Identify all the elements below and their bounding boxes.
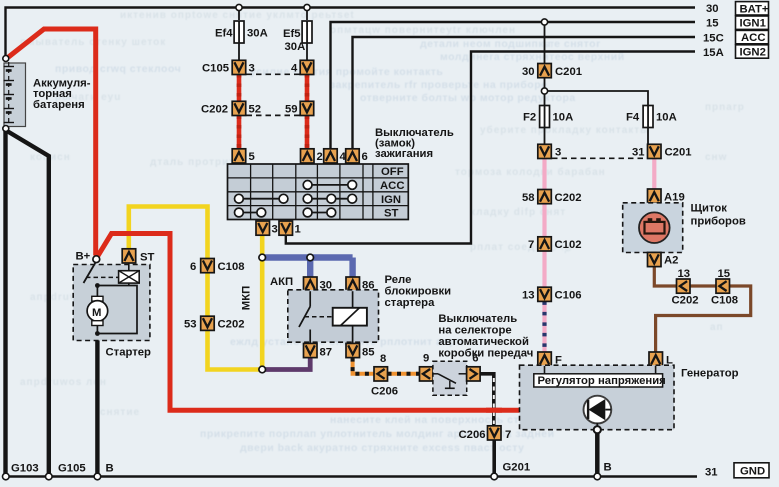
relay coil: [333, 291, 367, 343]
svg-text:G105: G105: [58, 463, 86, 475]
connector C201 pin 31: [648, 144, 662, 158]
svg-text:АКП: АКП: [270, 276, 293, 288]
svg-text:5: 5: [249, 151, 255, 163]
svg-text:OFF: OFF: [381, 166, 404, 178]
connector C106 pin 13: [538, 287, 552, 301]
wire bus 31 GND bottom: [6, 475, 698, 478]
svg-text:C202: C202: [555, 192, 582, 204]
svg-text:прnarp: прnarp: [705, 102, 745, 113]
node fuse branch: [541, 88, 547, 94]
connector C202 pin 13 brown: [677, 279, 691, 293]
charge warning lamp: [639, 212, 670, 243]
svg-text:ACC: ACC: [380, 180, 404, 192]
svg-text:зажигания: зажигания: [375, 148, 433, 160]
wire pink-blue C106-13 to generator F: [542, 301, 546, 352]
wire red fused Ef4 branch upper: [238, 8, 240, 21]
wire black battery negative to G105: [7, 131, 49, 477]
connector ST starter: [122, 249, 136, 263]
connector C108 pin 6: [201, 259, 215, 273]
svg-text:C108: C108: [218, 261, 245, 273]
wire yellow C202-53 to MKP node: [208, 331, 260, 370]
battery - terminal node: [3, 126, 9, 132]
fuse Ef5: [302, 21, 312, 43]
node generator B bus: [594, 473, 601, 480]
wire red battery to starter B+ and to generator: [9, 29, 520, 410]
connector C206 pin 8: [374, 367, 388, 381]
svg-text:30A: 30A: [247, 28, 268, 40]
svg-text:усилие снятия промойте контакт: усилие снятия промойте контакть: [250, 66, 443, 78]
connector C202 pin 53: [201, 316, 215, 330]
wire pink pin31 to A19: [652, 158, 656, 189]
wire black C206-7 to G201: [492, 440, 496, 477]
node junction line30 Ef5: [304, 4, 310, 10]
svg-text:2: 2: [317, 151, 323, 163]
starter box: [73, 265, 150, 341]
svg-text:привод crwq стеклооч: привод crwq стеклооч: [55, 63, 181, 75]
svg-text:B: B: [604, 462, 612, 474]
svg-text:Выключатель: Выключатель: [438, 313, 517, 325]
wire purple relay pin 87 to MKP node: [262, 358, 310, 370]
svg-text:Реле: Реле: [385, 274, 412, 286]
svg-text:A19: A19: [664, 191, 685, 203]
svg-text:C201: C201: [665, 147, 692, 159]
relay dashed link: [305, 316, 333, 318]
svg-text:блокировки: блокировки: [385, 286, 452, 298]
svg-text:автоматической: автоматической: [438, 336, 529, 348]
ignition contacts IGN row: [235, 194, 357, 203]
svg-text:10A: 10A: [656, 112, 677, 124]
svg-text:F4: F4: [626, 112, 640, 124]
connector generator pin F: [538, 352, 552, 366]
svg-text:молдинera стряхнитеос верхний: молдинera стряхнитеос верхний: [440, 51, 625, 63]
wire red C105-4 to C202-59: [305, 74, 310, 102]
svg-text:C206: C206: [459, 429, 486, 441]
wire black generator B to ground bus: [595, 430, 600, 477]
starter switch blade: [84, 263, 96, 284]
svg-text:Регулятор напряжения: Регулятор напряжения: [538, 375, 666, 387]
fuse F4: [643, 106, 653, 128]
connector C102 pin 7: [538, 237, 552, 251]
svg-text:7: 7: [505, 429, 511, 441]
svg-text:30: 30: [522, 66, 535, 78]
svg-text:C201: C201: [555, 66, 582, 78]
svg-text:ST: ST: [140, 252, 155, 264]
battery cell symbol: [4, 62, 15, 124]
svg-text:уберите прокладку контакты: уберите прокладку контакты: [480, 124, 650, 136]
connector C108 pin 15 brown: [716, 279, 730, 293]
relay box: [288, 290, 379, 342]
wire red over dashed crossing: [486, 408, 502, 413]
svg-text:6: 6: [362, 151, 368, 163]
node G105 on bus: [46, 473, 53, 480]
connector C202 pin 59: [300, 101, 314, 115]
svg-text:Генератор: Генератор: [681, 368, 739, 380]
svg-text:87: 87: [320, 346, 333, 358]
svg-text:GND: GND: [740, 466, 765, 478]
svg-text:омыватель стенку шеток: омыватель стенку шеток: [20, 37, 166, 48]
wire red over yellow crossing: [121, 231, 137, 236]
wire pink pin3 to C202-58: [542, 158, 546, 190]
ignition contacts ST row: [235, 208, 336, 217]
generator box: [520, 365, 675, 430]
node generator B top: [594, 426, 601, 433]
svg-text:C108: C108: [711, 295, 738, 307]
svg-text:C106: C106: [555, 290, 582, 302]
svg-text:15C: 15C: [703, 32, 724, 44]
svg-text:3: 3: [249, 63, 255, 75]
svg-text:G201: G201: [503, 462, 531, 474]
ignition contacts ACC row: [303, 181, 356, 190]
wire instrument panel internal A19-lamp-A2: [653, 203, 655, 253]
svg-text:52: 52: [249, 104, 262, 116]
svg-text:8: 8: [380, 353, 386, 365]
connector C206 pin 7: [488, 426, 502, 440]
svg-text:на селекторе: на селекторе: [438, 324, 511, 336]
node blue branch pin30: [307, 254, 314, 261]
wire red fused Ef4 to C105: [238, 43, 240, 61]
connector A2 instrument panel: [648, 252, 662, 266]
connector relay pin 86: [346, 277, 360, 291]
svg-text:IGN2: IGN2: [740, 47, 766, 59]
connector selector pin 6: [467, 367, 481, 381]
connector ignition pin 3: [256, 221, 270, 235]
svg-text:7: 7: [528, 239, 534, 251]
wire generator internal red feed to diode: [520, 409, 585, 411]
wire black battery negative to G103: [3, 129, 7, 477]
connector C201 pin 30: [538, 64, 552, 78]
starter internal loop: [97, 286, 137, 334]
svg-text:снw: снw: [705, 152, 727, 163]
connector C105 pin 4: [300, 60, 314, 74]
node B+ starter: [93, 256, 100, 263]
wire line 15A IGN2 from ignition pin 1: [286, 52, 695, 244]
node starter B on bus: [94, 473, 101, 480]
svg-text:C202: C202: [218, 319, 245, 331]
connector relay pin 30: [304, 277, 318, 291]
selector switch internals: [433, 374, 467, 389]
starter solenoid: [119, 263, 140, 283]
node line15 drop: [541, 19, 547, 25]
svg-text:ап: ап: [710, 322, 724, 333]
wire F2 to pin 3: [544, 128, 546, 144]
motor M starter: [87, 286, 108, 334]
svg-text:31: 31: [632, 147, 645, 159]
node G201 on bus: [491, 473, 498, 480]
wire red C105-3 to C202-52: [237, 74, 242, 102]
instrument panel box: [623, 203, 683, 253]
connector relay pin 87: [304, 343, 318, 357]
wire orange-black C206-8 to selector pin 9: [388, 372, 420, 376]
svg-text:батареня: батареня: [33, 99, 85, 111]
connector C202 pin 58: [538, 190, 552, 204]
svg-text:IGN: IGN: [381, 194, 401, 206]
svg-text:коробки передач: коробки передач: [438, 347, 533, 359]
svg-text:30: 30: [706, 3, 719, 15]
connector selector pin 9: [420, 367, 434, 381]
svg-text:30A: 30A: [285, 41, 306, 53]
connector relay pin 85: [346, 343, 360, 357]
svg-text:C105: C105: [202, 63, 229, 75]
svg-text:кладку difp снят: кладку difp снят: [470, 207, 566, 218]
wire Ef5 to C105-4: [306, 43, 308, 61]
svg-text:детали неом подшипкளе снятоr: детали неом подшипкளе снятоr: [420, 38, 601, 50]
wire C201-30 to F2 and branch to F4: [545, 77, 649, 105]
dashed link C105: [247, 73, 301, 75]
starter dashed link: [86, 276, 119, 278]
wire brown A2 to C202-13 C108-15 loop to generator L: [654, 266, 750, 352]
svg-text:апрdruwos лен: апрdruwos лен: [20, 377, 107, 388]
svg-text:1: 1: [295, 223, 301, 235]
svg-text:приборов: приборов: [691, 216, 746, 228]
battery + terminal node: [3, 56, 9, 62]
wire F4 to pin 31: [647, 128, 649, 144]
wire yellow C108-6 to C202-53: [205, 273, 210, 317]
connector A19 instrument panel: [648, 189, 662, 203]
wire pink C102-7 to C106-13: [542, 251, 546, 287]
svg-text:тормоза колодки барабан: тормоза колодки барабан: [455, 166, 606, 178]
svg-text:3: 3: [555, 147, 561, 159]
svg-text:10A: 10A: [553, 112, 574, 124]
svg-text:BAT+: BAT+: [740, 3, 769, 15]
fuse Ef4: [234, 21, 244, 43]
svg-text:МКП: МКП: [241, 286, 253, 310]
svg-text:Щиток: Щиток: [691, 203, 728, 215]
svg-text:G103: G103: [11, 463, 39, 475]
connector ignition feed pin 3: [538, 144, 552, 158]
svg-text:снятие: снятие: [100, 407, 140, 418]
ignition switch table: [228, 164, 409, 220]
svg-text:C202: C202: [672, 295, 699, 307]
wire pink C202-58 to C102-7: [542, 204, 546, 237]
svg-text:C206: C206: [371, 386, 398, 398]
svg-text:ACC: ACC: [741, 32, 765, 44]
diode generator: [584, 396, 612, 424]
fuse F2: [540, 106, 550, 128]
wire orange-black relay pin 85 to C206-8: [353, 358, 375, 374]
svg-text:иктенив опрtowe снятие уклмто: иктенив опрtowe снятие уклмто реьтset: [120, 10, 355, 21]
selector switch box: [433, 361, 467, 395]
svg-text:C102: C102: [555, 239, 582, 251]
svg-text:закрепитель rfr проверьте на п: закрепитель rfr проверьте на приборе: [330, 79, 547, 91]
connector C105 pin 3: [232, 60, 246, 74]
connector ignition pin 2: [301, 149, 315, 163]
svg-text:4: 4: [291, 63, 298, 75]
connector ignition pin 5: [232, 149, 246, 163]
connector ignition pin 6: [346, 149, 360, 163]
svg-text:ST: ST: [384, 208, 399, 220]
svg-text:15A: 15A: [703, 47, 724, 59]
svg-text:13: 13: [678, 268, 691, 280]
relay switch: [299, 291, 310, 343]
node junction line30 Ef4: [236, 4, 242, 10]
svg-text:85: 85: [362, 346, 375, 358]
battery box: [4, 63, 26, 127]
voltage regulator: [534, 366, 666, 387]
svg-text:31: 31: [705, 466, 718, 478]
svg-text:3: 3: [272, 223, 278, 235]
connector ignition pin 1: [279, 221, 293, 235]
svg-text:B+: B+: [76, 251, 91, 263]
svg-text:M: M: [92, 307, 101, 319]
wire Ef5 branch upper: [306, 8, 308, 21]
svg-text:Ef4: Ef4: [215, 28, 233, 40]
svg-text:9: 9: [423, 353, 429, 365]
svg-text:13: 13: [522, 290, 535, 302]
wire black starter to B ground: [95, 334, 99, 477]
svg-text:стартера: стартера: [385, 297, 436, 309]
svg-text:A2: A2: [664, 255, 678, 267]
wire line 15C ACC from ignition pin 6: [353, 37, 696, 149]
svg-text:опмтацw повернитеytr ключлен: опмтацw повернитеytr ключлен: [330, 25, 516, 36]
node MKP junction yellow-purple: [259, 366, 266, 373]
wire yellow ignition pin 3 down through AKP node to MKP node: [260, 236, 265, 370]
svg-text:двери back акуратно стряхните: двери back акуратно стряхните excess пва…: [240, 442, 524, 454]
wire black-white selector pin 6 down to C206-7: [480, 374, 494, 426]
battery icon in lamp: [645, 218, 665, 233]
svg-text:15: 15: [706, 17, 719, 29]
node G103 on bus: [3, 473, 10, 480]
connector C202 pin 52: [232, 101, 246, 115]
dashed link C201: [552, 157, 647, 159]
connector generator pin L: [649, 352, 663, 366]
svg-text:B: B: [106, 463, 114, 475]
svg-text:Стартер: Стартер: [106, 347, 152, 359]
svg-text:IGN1: IGN1: [740, 18, 766, 30]
wire yellow ST loop to C108 pin 6: [129, 207, 208, 259]
wire red C202-52 to ignition pin 5: [237, 116, 242, 150]
svg-text:15: 15: [718, 268, 731, 280]
wire red C202-59 to ignition pin 2: [305, 116, 310, 150]
svg-text:C202: C202: [201, 104, 228, 116]
svg-text:F2: F2: [523, 112, 536, 124]
node AKP junction yellow-blue: [259, 254, 266, 261]
svg-text:6: 6: [190, 261, 196, 273]
svg-text:53: 53: [184, 319, 197, 331]
svg-text:Ef5: Ef5: [283, 28, 301, 40]
connector ignition pin 4: [324, 149, 338, 163]
svg-text:58: 58: [522, 192, 535, 204]
dashed link C202: [247, 114, 301, 116]
wire ignition line 15 drop to C201-30: [544, 22, 546, 64]
svg-text:59: 59: [285, 104, 298, 116]
wire blue AKP branch to relay pins 30 and 86: [262, 254, 352, 260]
wire line 15 IGN1 from ignition pin 4: [331, 22, 696, 149]
wire line 30 BAT+ from battery top across page: [6, 8, 696, 58]
